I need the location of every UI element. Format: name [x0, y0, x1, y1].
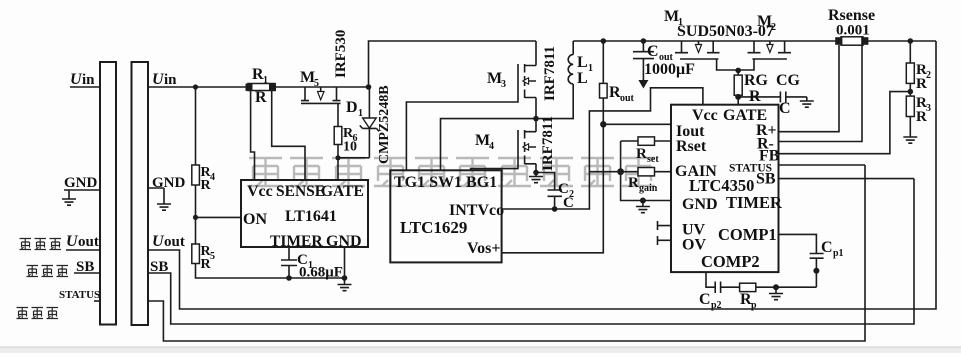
svg-text:5: 5: [210, 251, 215, 262]
capacitor CG: [738, 92, 807, 103]
svg-text:COMP1: COMP1: [718, 225, 777, 244]
svg-text:SENSE: SENSE: [276, 183, 325, 200]
node 均流线 label: [27, 266, 39, 277]
wire INTVcc to Vcc route: [502, 88, 703, 209]
wire R5 to ground line: [196, 264, 345, 279]
svg-text:GND: GND: [682, 196, 718, 213]
node GND junction: [640, 198, 646, 204]
svg-text:in: in: [82, 72, 95, 88]
wire GND left: [64, 190, 100, 199]
svg-text:R: R: [636, 146, 647, 162]
node Vin junction: [366, 84, 372, 90]
svg-text:GND: GND: [64, 175, 98, 191]
capacitor Cout: [641, 38, 647, 44]
node Cp1 junction: [813, 268, 819, 274]
svg-text:R: R: [749, 88, 761, 105]
wire Iout: [603, 123, 671, 125]
IC LT1641: [241, 180, 368, 247]
node GAIN junction: [617, 168, 624, 175]
node ON junction: [193, 215, 198, 220]
connector bar 1: [100, 62, 116, 325]
node C2 junction: [552, 206, 558, 212]
svg-text:Rsense: Rsense: [828, 7, 875, 24]
svg-text:Vos+: Vos+: [467, 240, 500, 257]
capacitor Cp2: [715, 282, 739, 294]
svg-text:M: M: [757, 13, 772, 30]
ground (M4 source): [535, 173, 537, 177]
wire R- sense: [779, 45, 863, 142]
wire Rp to Cp1: [756, 286, 817, 288]
svg-text:LTC1629: LTC1629: [400, 218, 467, 237]
connector bar 2: [132, 62, 149, 325]
svg-text:IRF530: IRF530: [333, 30, 349, 78]
wire M3 gate to TG1: [406, 98, 518, 170]
svg-text:R: R: [628, 175, 639, 191]
svg-text:C: C: [779, 100, 791, 117]
svg-text:TG1 SW1 BG1: TG1 SW1 BG1: [394, 174, 497, 191]
wire STATUS pin: [779, 164, 866, 166]
wire SB pin: [779, 178, 915, 180]
svg-text:SB: SB: [756, 171, 776, 188]
node FB junction: [909, 83, 911, 96]
node A junction R4 on Uin: [193, 84, 198, 89]
watermark 杭州将睿科技有限公司: [249, 158, 655, 186]
svg-text:IRF7811: IRF7811: [540, 116, 556, 171]
svg-text:TIMER: TIMER: [726, 193, 783, 212]
svg-text:R: R: [201, 178, 212, 193]
svg-text:L: L: [577, 54, 588, 71]
svg-text:4: 4: [210, 172, 215, 183]
svg-text:1: 1: [588, 63, 593, 74]
svg-text:STATUS: STATUS: [59, 289, 100, 301]
svg-text:p2: p2: [711, 300, 722, 311]
svg-text:R: R: [916, 109, 927, 125]
wire GND right: [148, 188, 164, 204]
wire Uout to bottom bus: [148, 41, 936, 309]
node GATE junction: [335, 155, 340, 160]
wire COMP1 to Cp1: [779, 234, 817, 253]
wire COMP2: [706, 272, 715, 287]
svg-text:GATE: GATE: [321, 183, 364, 200]
wire Rset/GND tie: [621, 141, 671, 201]
capacitor C1: [281, 247, 297, 278]
node 负载线 label: [20, 239, 32, 250]
resistor Rout: [601, 38, 607, 44]
svg-text:C: C: [647, 43, 659, 60]
node gnd junction: [342, 275, 348, 281]
capacitor C2: [536, 173, 562, 210]
svg-text:2: 2: [771, 22, 776, 33]
svg-text:C: C: [821, 239, 833, 256]
wire M5 gate to R6: [337, 103, 339, 126]
wire STATUS to bottom bus: [148, 165, 865, 341]
svg-text:OV: OV: [682, 237, 706, 254]
svg-text:Rset: Rset: [676, 138, 707, 155]
wire GATE pin: [737, 95, 739, 104]
svg-text:IRF7811: IRF7811: [542, 46, 558, 101]
wire SW to SW1 pin: [441, 119, 537, 171]
node Iout junction: [600, 121, 606, 127]
wire R6 to GATE pin: [337, 145, 339, 181]
svg-text:RG: RG: [744, 72, 769, 89]
resistor Rset: [621, 140, 671, 142]
ground (comp network): [775, 287, 777, 293]
wire SB left: [74, 272, 100, 274]
resistor R4: [192, 165, 200, 185]
svg-text:out: out: [164, 234, 185, 250]
wire gate node to D1: [338, 157, 369, 159]
ground (CG): [800, 101, 814, 107]
wire Uout left: [66, 249, 100, 251]
svg-text:out: out: [620, 93, 635, 104]
IC LTC1629: [390, 170, 501, 262]
resistor Rgain: [589, 171, 671, 173]
ground (right connector): [157, 204, 171, 210]
wire output rail: [573, 40, 936, 42]
svg-text:M: M: [475, 132, 490, 149]
svg-text:L: L: [577, 70, 588, 87]
pin UV stub: [658, 221, 672, 230]
ground (left connector): [62, 199, 76, 205]
svg-text:5: 5: [314, 78, 319, 89]
svg-text:COMP2: COMP2: [701, 252, 760, 271]
svg-text:R: R: [201, 257, 212, 272]
svg-text:gain: gain: [639, 183, 658, 194]
svg-text:R: R: [255, 89, 267, 106]
svg-text:D: D: [346, 99, 358, 116]
pin OV stub: [658, 236, 672, 245]
wire Uin main: [148, 86, 369, 88]
resistor R2: [908, 38, 914, 44]
svg-text:4: 4: [489, 141, 494, 152]
wire R1 left sense to Vcc: [251, 91, 255, 180]
svg-text:in: in: [164, 72, 177, 88]
wire R1 right sense to SENSE: [272, 91, 305, 180]
svg-text:set: set: [647, 154, 659, 165]
wire R4 to ON node: [195, 185, 197, 244]
svg-text:ON: ON: [243, 211, 267, 228]
svg-text:Vcc: Vcc: [247, 183, 273, 200]
node M4 source junction: [533, 170, 539, 176]
svg-text:TIMER: TIMER: [270, 233, 323, 250]
capacitor Cp1: [810, 254, 824, 288]
svg-text:LT1641: LT1641: [285, 208, 337, 225]
resistor R5: [192, 244, 200, 264]
svg-text:p1: p1: [833, 248, 844, 259]
node SW junction: [533, 116, 539, 122]
svg-text:1000μF: 1000μF: [644, 61, 695, 78]
wire ON: [196, 216, 242, 218]
node 状态线 label: [17, 308, 29, 319]
wire SW to inductor: [536, 84, 573, 119]
wire GND pin drop: [344, 247, 346, 285]
wire R4 drop: [195, 87, 197, 165]
wire M1 gate: [717, 59, 739, 70]
ground (R3): [903, 137, 917, 143]
wire FB: [779, 92, 911, 154]
svg-text:CMPZ5248B: CMPZ5248B: [377, 85, 392, 164]
svg-text:10: 10: [343, 140, 357, 155]
resistor RG: [735, 68, 741, 74]
wire M4 gate to BG1: [471, 164, 518, 170]
wire Uin left: [70, 86, 100, 88]
transistor M2: [748, 41, 792, 59]
svg-text:INTVco: INTVco: [449, 202, 504, 219]
svg-text:p: p: [751, 300, 757, 311]
wire Vos+: [502, 98, 604, 253]
resistor R3: [906, 96, 914, 116]
resistor R6: [334, 127, 342, 145]
svg-text:M: M: [300, 69, 315, 86]
svg-text:Vcc: Vcc: [692, 107, 718, 124]
wire SB to bottom bus: [148, 179, 914, 324]
ground (LTC4350 GND): [642, 201, 644, 207]
wire Vin rail: [369, 41, 537, 87]
svg-text:out: out: [78, 234, 99, 250]
node RG bottom junction: [735, 94, 741, 100]
svg-text:C: C: [699, 291, 711, 308]
inductor L1: [568, 41, 573, 84]
IC LTC4350: [671, 105, 779, 272]
wire R+ sense: [779, 45, 840, 132]
wire M2 gate: [738, 59, 754, 70]
ground (LT1641): [338, 285, 352, 291]
svg-text:R: R: [916, 76, 927, 92]
svg-text:M: M: [487, 70, 502, 87]
svg-text:0.68μF: 0.68μF: [299, 265, 343, 281]
resistor Rp: [740, 283, 756, 291]
node gnd junction (comp): [773, 284, 779, 290]
node C1 junction: [286, 275, 292, 281]
wire STATUS left: [94, 300, 100, 302]
svg-text:CG: CG: [776, 72, 801, 89]
svg-text:3: 3: [501, 79, 506, 90]
